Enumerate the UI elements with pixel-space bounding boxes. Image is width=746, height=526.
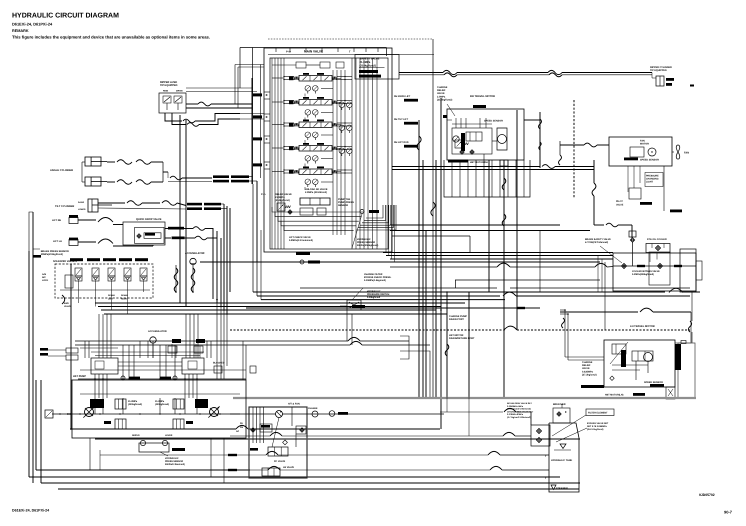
wire: rails y64-67 into valve top <box>235 64 264 66</box>
svg-text:This figure includes the equip: This figure includes the equipment and d… <box>12 35 210 40</box>
left inlet port <box>45 410 53 418</box>
svg-text:A/M: A/M <box>42 273 46 276</box>
pc inner verticals right <box>291 407 293 426</box>
svg-text:(0.77kg/cm2 0.80m/cm2): (0.77kg/cm2 0.80m/cm2) <box>507 416 531 419</box>
wire: rail y312 right <box>560 311 638 313</box>
wire: angle lines right then down <box>249 176 253 178</box>
svg-text:HYDRAULIC CIRCUIT DIAGRAM: HYDRAULIC CIRCUIT DIAGRAM <box>12 13 119 20</box>
ripper pilot valve box <box>159 93 186 113</box>
svg-text:0.15MPa(1.5kg/cm2): 0.15MPa(1.5kg/cm2) <box>364 279 386 282</box>
bypass rail inside <box>613 265 696 267</box>
wire: vertical x469 <box>468 292 470 397</box>
svg-text:PC VALVE: PC VALVE <box>274 460 286 463</box>
hst pump circle left <box>85 408 94 417</box>
svg-text:90-7: 90-7 <box>724 510 733 515</box>
quick drop valve box <box>123 222 165 245</box>
svg-text:(214kgf/cm2): (214kgf/cm2) <box>275 199 290 202</box>
wire: RH motor right hose x540 <box>524 119 540 121</box>
pump area rails y352 y356 <box>91 351 204 353</box>
svg-text:(420kgf/cm2): (420kgf/cm2) <box>128 403 142 406</box>
wire: x605 vertical lower <box>604 262 606 330</box>
svg-text:LOWER: LOWER <box>78 208 86 211</box>
small comp on motor bottom <box>500 160 508 166</box>
main valve spool row 5 <box>299 169 332 175</box>
wire: arrow marks on tank lines <box>228 454 237 456</box>
sensor blob under pilot valve <box>640 202 652 205</box>
uncharging set blob <box>359 70 378 73</box>
angle cylinder bottom <box>85 177 101 186</box>
LH motor servo <box>632 351 653 361</box>
safety valve box <box>355 55 399 80</box>
wire: x71 to y429 <box>70 428 72 430</box>
gear pump circle <box>276 411 283 418</box>
wire: lift lh hose under box <box>78 241 96 243</box>
wire: x252 x257 verticals <box>251 78 253 184</box>
RH travel motor outer box <box>447 109 524 160</box>
lower spool boxes <box>115 419 126 429</box>
bundle verticals down to pump <box>216 303 218 379</box>
svg-text:SPEED SENSOR: SPEED SENSOR <box>640 159 659 162</box>
svg-text:0.0049MPa 5kPa: 0.0049MPa 5kPa <box>507 405 524 408</box>
port circles on rail <box>121 376 125 380</box>
LH motor pilot valves <box>612 344 626 354</box>
svg-text:HYDRAULIC: HYDRAULIC <box>357 238 371 241</box>
servo sensor blob <box>172 448 185 451</box>
svg-text:PRESSURE SWITCH: PRESSURE SWITCH <box>367 293 390 296</box>
wire: angle hoses <box>107 161 115 163</box>
svg-text:RH TILT LIFT: RH TILT LIFT <box>394 118 409 121</box>
hydraulic tank outline <box>549 423 579 492</box>
main valve spool row 2 <box>299 100 332 106</box>
svg-text:VALVE: VALVE <box>64 305 72 308</box>
wire: x252-260 verticals upper <box>252 48 254 111</box>
svg-text:BLOCKED: BLOCKED <box>213 362 225 365</box>
bypass check diamonds <box>621 263 626 268</box>
main valve junction dots <box>283 76 284 77</box>
left frame corner loops <box>29 212 33 251</box>
sensor port on y262 <box>300 260 304 264</box>
spool row tiny labels <box>303 73 309 75</box>
main valve spool row 3 <box>299 122 332 128</box>
svg-text:BYPASS VALVE SET: BYPASS VALVE SET <box>587 422 609 425</box>
cooled bypass valve outer box <box>613 253 696 291</box>
main valve unload valve <box>300 198 330 205</box>
wire: rail y47.5 <box>240 47 387 49</box>
wire: rail y262 long <box>200 261 600 263</box>
wire: mid-belt rails from solenoid cluster <box>95 302 465 304</box>
RH motor check valves <box>460 150 464 154</box>
ripper pilot valves <box>163 96 171 103</box>
wire: fan right drop to connect <box>663 166 665 211</box>
pump rail upper <box>78 378 246 380</box>
wire: y455 y470 left stubs <box>99 450 101 470</box>
pump area upper verticals <box>84 341 86 358</box>
pressure switch component <box>347 300 361 310</box>
angle hose labels <box>213 175 229 178</box>
svg-text:N/C: N/C <box>42 276 46 279</box>
svg-text:& TOW(CET.34a/cm2): & TOW(CET.34a/cm2) <box>585 241 608 244</box>
HST motor RH label <box>448 160 468 163</box>
RH motor under-box verticals <box>451 160 453 197</box>
filter leader <box>352 288 363 300</box>
wire: rail y225 from staircase <box>390 224 560 226</box>
svg-text:BYPASS CHECK PRESS-: BYPASS CHECK PRESS- <box>364 276 392 279</box>
sensor leader <box>352 214 362 248</box>
RH motor symbol <box>497 128 507 150</box>
wire: rails y252-259 staircase extensions <box>383 252 613 254</box>
svg-text:HYDRAULIC TANK: HYDRAULIC TANK <box>551 459 572 462</box>
filter blobs <box>172 339 181 343</box>
filter drops to servo <box>152 344 154 358</box>
main valve bottom nested wires <box>272 207 364 212</box>
wire: left-mid verticals <box>70 264 72 429</box>
svg-text:TIP EQUIPPED: TIP EQUIPPED <box>650 69 667 72</box>
pump rail <box>52 413 240 415</box>
svg-text:VALVE: VALVE <box>616 204 624 207</box>
main valve left port labels <box>253 93 262 96</box>
svg-text:D61EXi-24, D61PXi-24: D61EXi-24, D61PXi-24 <box>12 509 49 513</box>
svg-text:FAN: FAN <box>684 152 689 155</box>
svg-text:ACCUMULATOR: ACCUMULATOR <box>148 330 167 333</box>
quick drop inner box <box>135 227 164 243</box>
wire: rail y308 with arrow <box>246 307 517 309</box>
svg-text:CHARGE FILTER: CHARGE FILTER <box>364 273 383 276</box>
LH motor diagonal <box>610 342 628 364</box>
ground lift blob <box>581 385 604 388</box>
accumulator 2 symbol <box>150 337 156 343</box>
main valve staircase wires <box>366 205 383 218</box>
wire: angle cyl left link <box>82 161 85 163</box>
svg-text:AP: AP <box>236 430 240 433</box>
change pump circles <box>312 411 318 417</box>
svg-text:MOTOR: MOTOR <box>640 143 649 146</box>
nested box right of bypass <box>680 249 696 292</box>
svg-text:SERVO: SERVO <box>132 434 140 437</box>
pump group thick gray bar <box>233 397 696 399</box>
svg-text:0.49kgf/cm2: 0.49kgf/cm2 <box>367 296 381 299</box>
wire: lower rails <box>70 428 236 430</box>
main valve outer box <box>264 48 392 252</box>
svg-text:9JD05702: 9JD05702 <box>699 493 715 497</box>
pilot valve box <box>629 188 641 199</box>
svg-text:PRESSURE: PRESSURE <box>646 175 659 178</box>
LH motor diamonds <box>610 376 614 380</box>
junction dots on mid rails <box>175 291 177 293</box>
antidrift valve blob <box>359 75 381 78</box>
svg-text:0.4MPa(250kgf/cm2): 0.4MPa(250kgf/cm2) <box>632 273 654 276</box>
svg-text:HYDRAULIC: HYDRAULIC <box>165 457 179 460</box>
main valve bus rung wires <box>284 76 294 78</box>
wire: dashed vertical x574 <box>573 100 575 198</box>
svg-text:FILTER ELEMENT: FILTER ELEMENT <box>588 412 608 415</box>
wire: to fan motor <box>560 144 584 146</box>
wire: lift down cyl out <box>165 228 168 230</box>
svg-text:500Pa/2.45m/cm2): 500Pa/2.45m/cm2) <box>165 463 185 466</box>
wire: pump rail through pc box <box>230 413 276 415</box>
wire: LH motor outer loop right <box>675 312 691 343</box>
filter element leader <box>552 415 586 436</box>
wire: outer left verticals <box>28 251 30 477</box>
servo lever circles box <box>139 443 169 452</box>
accumulator 1 symbol <box>190 258 196 264</box>
hst pump top connectors <box>66 348 78 353</box>
brake safety valve component <box>629 231 636 237</box>
lb valve spool <box>262 468 280 476</box>
fan motor box <box>609 137 672 166</box>
servo drop wires in pump box <box>94 374 96 398</box>
quick drop valve spool <box>144 233 161 239</box>
wire: y113-119 to main valve <box>240 113 264 115</box>
wire: rail y288 <box>300 287 497 289</box>
wire: top dashed rail y39 <box>268 38 433 40</box>
pc valve outer box gray <box>249 407 307 478</box>
svg-text:LIFT RH: LIFT RH <box>52 219 61 222</box>
LH motor dark spool <box>621 350 626 367</box>
svg-text:RAISE: RAISE <box>78 201 85 204</box>
svg-text:P-in: P-in <box>286 51 291 54</box>
wire: left frame verticals to bottom <box>35 380 37 470</box>
svg-text:ACCUMULATOR: ACCUMULATOR <box>185 252 205 255</box>
wire: ripper box to bus <box>186 103 198 105</box>
fan pilot drop wires <box>627 166 629 192</box>
svg-text:ANGLE CYLINDER: ANGLE CYLINDER <box>50 169 73 172</box>
cooled bypass inner small box <box>649 252 670 285</box>
svg-text:STRAINER: STRAINER <box>556 487 568 490</box>
wire: tilt hoses <box>98 202 125 204</box>
fan speed sensor label <box>624 158 638 161</box>
RH motor inner verticals <box>455 118 457 128</box>
svg-text:HST PUMP: HST PUMP <box>73 375 86 378</box>
svg-text:RH KNIFE LIFT: RH KNIFE LIFT <box>394 95 411 98</box>
wire: rail y267 <box>390 266 497 268</box>
wire: vertical x540 <box>539 112 541 168</box>
svg-text:REMARK: REMARK <box>12 29 29 33</box>
svg-text:PILOT: PILOT <box>616 200 623 203</box>
wire: solenoid drops <box>78 284 80 303</box>
tank area connect verticals <box>446 397 448 412</box>
tilt hose labels <box>187 203 202 206</box>
pump area mid verticals <box>122 345 124 379</box>
solenoid top labels <box>70 258 83 261</box>
wire: ripper box lower loop <box>165 113 182 121</box>
svg-text:INTAKE SIDE VALVE SET: INTAKE SIDE VALVE SET <box>507 402 533 405</box>
svg-text:LIFT LH: LIFT LH <box>53 240 62 243</box>
wire: x540 lower segment <box>539 231 541 293</box>
wire: rails y292 - y299 <box>253 291 665 293</box>
LH under-bar component <box>666 387 675 399</box>
wire: rail y236 and corner x470 <box>392 235 470 237</box>
leader line <box>447 104 455 116</box>
svg-text:LEFT: LEFT <box>108 297 114 300</box>
svg-text:HST MOTOR(LH): HST MOTOR(LH) <box>605 394 624 397</box>
pump box inner verticals <box>94 398 96 414</box>
wire: bottom long rails <box>36 469 250 471</box>
oil level mark <box>554 449 571 451</box>
wire: pump box drops <box>89 438 91 470</box>
stg oil cooler box <box>646 244 670 253</box>
main valve mid bus wires <box>332 70 334 235</box>
RH motor under-loop box <box>444 160 530 197</box>
RH motor speed sensor <box>473 105 486 108</box>
svg-text:H/T & FAN: H/T & FAN <box>288 403 300 406</box>
svg-text:STG OIL COOLER: STG OIL COOLER <box>647 238 667 241</box>
right servo box <box>182 358 204 374</box>
wire: right bundle x638-660 drops from stg cooler <box>649 253 651 262</box>
svg-text:500Pa (250kgf/cm2): 500Pa (250kgf/cm2) <box>357 244 379 247</box>
ripper cylinder component <box>656 76 664 86</box>
pilot to mid-bus row wires <box>321 88 333 90</box>
svg-text:(0.8 0.1kgf/cm2): (0.8 0.1kgf/cm2) <box>587 428 604 431</box>
main valve spool row 1 <box>299 76 332 82</box>
main valve top structure <box>296 62 306 68</box>
wire: brake sensor link <box>33 248 40 250</box>
svg-text:RH LIFT ROD: RH LIFT ROD <box>394 141 409 144</box>
svg-text:DRIVE: DRIVE <box>176 90 183 93</box>
wire: vertical x489 x504 x517 <box>488 160 490 292</box>
hst pump outer box <box>72 380 246 438</box>
svg-text:SENSOR: SENSOR <box>338 204 348 207</box>
svg-text:COOLED BYPASS VALVE: COOLED BYPASS VALVE <box>632 270 660 273</box>
svg-text:SET 0.79 0.098MPa: SET 0.79 0.098MPa <box>587 425 607 428</box>
svg-text:2.9MPa (219/4/cm2): 2.9MPa (219/4/cm2) <box>305 191 327 194</box>
relief spool boxes upper <box>115 399 126 409</box>
angle cylinder top <box>85 157 101 166</box>
pc pump diagonal <box>272 418 279 448</box>
LH motor inner wires <box>612 364 648 366</box>
blocked ports <box>214 366 222 373</box>
wire: lift rh hose to quick drop <box>78 219 96 221</box>
lift LH port <box>69 240 78 246</box>
wire: long top rail to ripper cylinder <box>399 72 443 74</box>
svg-text:BREATHER: BREATHER <box>553 403 566 406</box>
svg-text:SPEED SENSOR: SPEED SENSOR <box>484 120 503 123</box>
svg-text:(420kgf/cm2): (420kgf/cm2) <box>155 403 169 406</box>
svg-text:RISE: RISE <box>163 90 169 93</box>
mark near top right <box>690 85 694 87</box>
main valve port ticks <box>264 91 270 93</box>
staircase to rails <box>385 205 387 253</box>
rails y341 y345 <box>75 340 348 342</box>
svg-text:QUICK DROP VALVE: QUICK DROP VALVE <box>136 218 162 221</box>
svg-text:D61EXi-24, D61PXi-24: D61EXi-24, D61PXi-24 <box>12 22 53 27</box>
svg-text:RH TRAVEL MOTOR: RH TRAVEL MOTOR <box>470 95 495 98</box>
pump rail junction dots <box>94 378 95 379</box>
wire: bypass box drop x692 <box>691 292 693 321</box>
main valve bottom label blob <box>296 252 310 255</box>
tilt cylinder <box>88 199 98 212</box>
wire: rails y88-91 from ripper box <box>186 87 252 89</box>
A/M lock valve <box>65 275 73 288</box>
pump mesh verticals x243 <box>242 341 244 380</box>
LH right panel <box>678 343 695 398</box>
strainer valve box <box>531 425 550 446</box>
svg-text:20MPa(201kgf/cm2): 20MPa(201kgf/cm2) <box>41 253 63 256</box>
svg-text:DRAIN PORT: DRAIN PORT <box>449 318 464 321</box>
hst pump circle right <box>210 408 219 417</box>
wire: x213-218 bundle verticals <box>212 228 214 299</box>
lift RH port <box>69 218 78 224</box>
svg-text:HST MOTOR/RH: HST MOTOR/RH <box>470 161 488 164</box>
solenoid valves row <box>75 268 82 276</box>
svg-text:PB: PB <box>240 426 243 429</box>
bypass leader diagonal <box>600 246 622 263</box>
svg-text:PRESS SENSOR: PRESS SENSOR <box>165 460 183 463</box>
svg-text:PA: PA <box>240 422 243 425</box>
extra ticks on pump rail <box>59 413 61 415</box>
svg-text:TILT CYLINDER: TILT CYLINDER <box>55 205 74 208</box>
main valve spool row 4 <box>299 146 332 152</box>
wire: center vertical bus x419-447 <box>418 120 420 397</box>
RH motor inner rail <box>452 123 492 125</box>
fan symbol <box>676 145 679 159</box>
fan motor circle <box>648 148 656 156</box>
RH motor inner details <box>443 115 447 118</box>
left servo box <box>91 358 118 374</box>
breather box <box>553 408 570 423</box>
wire: drops from rails 252-262 at right <box>597 256 599 293</box>
solenoid bottom rail in box <box>60 289 150 291</box>
svg-text:LEVER: LEVER <box>165 434 173 437</box>
pc valve internals <box>260 424 272 432</box>
svg-text:RIGHT: RIGHT <box>121 297 128 300</box>
pump inner rail y394 <box>80 393 240 395</box>
svg-text:DRAIN/RETURN PORT: DRAIN/RETURN PORT <box>449 337 475 340</box>
wire: rails y166-169 mid right <box>392 166 540 168</box>
svg-text:(21.5kgf/cm2): (21.5kgf/cm2) <box>437 98 452 101</box>
bypass leader <box>556 428 587 442</box>
svg-text:0.079MPa 80kPa: 0.079MPa 80kPa <box>507 413 524 416</box>
svg-text:CHANGING: CHANGING <box>646 178 659 181</box>
svg-text:TIP EQUIPPED: TIP EQUIPPED <box>160 84 178 87</box>
pump press sensor port <box>360 210 364 214</box>
pc valve spool <box>268 447 288 456</box>
wire: accumulator hoses <box>175 265 177 292</box>
wire: lines into tank <box>440 411 503 413</box>
wire: lift up cyl out <box>165 237 171 239</box>
wire: right loop x594 down <box>593 160 595 183</box>
main valve inner box <box>270 58 388 249</box>
pc junction diamonds <box>283 440 288 445</box>
svg-text:LIFT CHECK VALVE: LIFT CHECK VALVE <box>289 236 311 239</box>
svg-text:(214kgf/cm2): (214kgf/cm2) <box>360 64 377 67</box>
svg-text:SPEED SENSOR: SPEED SENSOR <box>644 381 663 384</box>
svg-text:LOCK: LOCK <box>42 279 49 282</box>
wire: rail y54.5 to x434 <box>268 54 434 56</box>
filter element label <box>586 409 614 416</box>
svg-text:LH TRAVEL MOTOR: LH TRAVEL MOTOR <box>630 325 655 328</box>
svg-text:MAIN VALVE: MAIN VALVE <box>304 50 323 54</box>
wire: rail y230 long <box>390 230 590 232</box>
solenoid valve 5 dashed box <box>55 264 153 298</box>
wire: rail y280 <box>455 279 600 281</box>
svg-text:P-in: P-in <box>261 193 266 196</box>
main valve left bus wires <box>271 58 273 249</box>
wire: dashed rail y330 <box>230 329 503 331</box>
wire: LH motor feed loop <box>560 309 565 311</box>
svg-text:HYDRAULIC: HYDRAULIC <box>367 290 381 293</box>
main valve bottom small valves <box>300 208 313 215</box>
svg-text:BRAKE SAFETY VALVE: BRAKE SAFETY VALVE <box>585 238 611 241</box>
relief dark cluster left <box>90 399 104 408</box>
RH motor servo block <box>452 128 492 154</box>
pc box inner verticals <box>252 407 254 443</box>
verticals rails to pump box <box>98 314 100 358</box>
main valve right bus wires <box>351 58 353 249</box>
LH motor symbol <box>644 353 653 362</box>
svg-text:SPEED: SPEED <box>108 294 116 297</box>
svg-text:CHANGE: CHANGE <box>308 407 318 410</box>
svg-text:LIGHT: LIGHT <box>646 181 653 184</box>
